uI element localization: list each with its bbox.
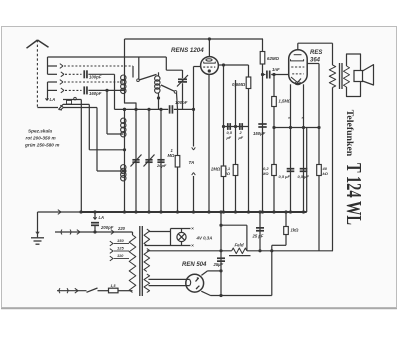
svg-text:160pF: 160pF bbox=[89, 91, 102, 96]
svg-text:20pF: 20pF bbox=[156, 163, 167, 168]
svg-text:0,5 µF: 0,5 µF bbox=[298, 174, 310, 179]
svg-text:200pF: 200pF bbox=[100, 225, 114, 230]
svg-text:110: 110 bbox=[117, 253, 124, 258]
svg-text:RENS 1204: RENS 1204 bbox=[171, 47, 204, 54]
svg-text:LA: LA bbox=[50, 97, 56, 102]
svg-text:100pF: 100pF bbox=[89, 75, 102, 80]
svg-text:TA: TA bbox=[189, 160, 195, 165]
svg-text:1nF: 1nF bbox=[272, 67, 280, 72]
svg-text:MΩ: MΩ bbox=[262, 171, 269, 176]
svg-text:220: 220 bbox=[117, 226, 126, 231]
svg-text:25µF: 25µF bbox=[213, 262, 224, 267]
svg-text:150µF: 150µF bbox=[253, 131, 266, 136]
svg-text:1,5MΩ: 1,5MΩ bbox=[279, 98, 292, 103]
svg-text:4V 0,3A: 4V 0,3A bbox=[196, 236, 213, 241]
svg-text:kΩ: kΩ bbox=[323, 171, 329, 176]
svg-text:Telefunken: Telefunken bbox=[344, 110, 355, 157]
svg-text:0,6MΩ: 0,6MΩ bbox=[232, 82, 246, 87]
svg-text:100pF: 100pF bbox=[175, 100, 188, 105]
svg-text:MΩ: MΩ bbox=[168, 153, 175, 158]
svg-text:grün 250-580 m: grün 250-580 m bbox=[24, 143, 59, 148]
svg-text:T 124 WL: T 124 WL bbox=[342, 163, 366, 225]
svg-text:×: × bbox=[191, 226, 194, 231]
svg-text:REN 504: REN 504 bbox=[182, 262, 207, 268]
svg-text:25 µF: 25 µF bbox=[252, 233, 264, 238]
svg-text:1kΩ: 1kΩ bbox=[291, 228, 300, 233]
svg-text:LA: LA bbox=[99, 215, 105, 220]
svg-text:×: × bbox=[191, 243, 194, 248]
svg-text:150: 150 bbox=[117, 238, 124, 243]
svg-text:Spez.skala: Spez.skala bbox=[28, 129, 52, 134]
svg-text:Feld: Feld bbox=[235, 242, 244, 247]
svg-text:µF: µF bbox=[226, 135, 232, 140]
svg-text:rot 200-350 m: rot 200-350 m bbox=[26, 136, 56, 141]
svg-text:µF: µF bbox=[238, 135, 244, 140]
svg-text:125: 125 bbox=[117, 246, 124, 251]
svg-text:RES: RES bbox=[310, 50, 322, 56]
svg-text:364: 364 bbox=[310, 58, 321, 64]
svg-text:0,5 µF: 0,5 µF bbox=[279, 174, 291, 179]
svg-text:62MΩ: 62MΩ bbox=[267, 56, 280, 61]
svg-text:2MΩ: 2MΩ bbox=[210, 167, 221, 172]
